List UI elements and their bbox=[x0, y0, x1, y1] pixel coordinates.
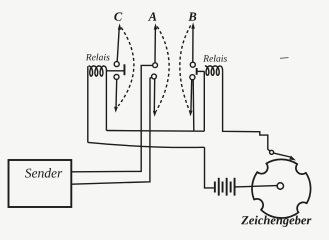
reed B rod lower bbox=[190, 80, 193, 112]
reed A lower contact circle bbox=[152, 74, 157, 79]
label A bbox=[148, 12, 156, 20]
reed A upper contact circle bbox=[153, 63, 158, 68]
reed A bottom arrowhead bbox=[153, 111, 157, 117]
reed B rod upper bbox=[192, 26, 194, 62]
battery B1 bbox=[214, 178, 236, 196]
reed B lower contact circle bbox=[190, 75, 195, 80]
label C bbox=[114, 12, 122, 20]
coil L1 right-end connector bbox=[104, 66, 106, 71]
wire: battery bus horizontal bbox=[88, 142, 205, 147]
Zeichengeber cam wheel bbox=[252, 159, 311, 218]
reed B swing arc (dashed) bbox=[180, 26, 191, 112]
contact bar C bbox=[124, 64, 126, 75]
Sender box bbox=[9, 160, 72, 207]
wire: left relay coil to bar C bbox=[106, 70, 123, 72]
reed B upper contact circle bbox=[190, 62, 195, 67]
wire: left coil left end down to battery bus bbox=[87, 66, 89, 142]
reed C rod upper bbox=[117, 27, 119, 62]
label B bbox=[188, 13, 196, 21]
reed C upper contact circle bbox=[114, 62, 119, 67]
label Relais (right) bbox=[203, 55, 227, 62]
wire: left coil right end down bbox=[105, 71, 107, 131]
selector contact pivot bbox=[270, 150, 274, 154]
reed A rod upper bbox=[154, 26, 156, 62]
reed C bottom arrowhead bbox=[114, 107, 118, 113]
reed C lower contact circle bbox=[114, 74, 119, 79]
selector lever arrowhead bbox=[289, 156, 296, 161]
wire: A lower contact to sender (bottom) bbox=[72, 77, 152, 184]
coil L2 right-end connector bbox=[220, 66, 222, 72]
wire: common up to right coil left end bbox=[203, 71, 205, 131]
label Zeichengeber bbox=[241, 216, 311, 227]
wire: bar B to right coil bbox=[197, 70, 204, 72]
reed A swing arc (dashed) bbox=[156, 27, 169, 112]
wire: B lower contact down to common bbox=[192, 80, 195, 131]
wire: right coil right end down and across to selector contact bbox=[223, 72, 270, 151]
reed C rod lower bbox=[115, 80, 118, 109]
contact bar B bbox=[196, 68, 198, 75]
ink speck bbox=[280, 57, 289, 60]
reed C swing arc (dashed) bbox=[118, 28, 134, 107]
relay coil L2 (right) bbox=[205, 66, 220, 75]
reed B bottom arrowhead bbox=[189, 111, 193, 117]
reed A rod lower bbox=[153, 79, 155, 113]
reed A top arrowhead bbox=[154, 23, 158, 29]
reed C top arrowhead bbox=[118, 23, 122, 29]
wire: relay common horizontal bbox=[106, 130, 204, 133]
reed B top arrowhead bbox=[191, 22, 195, 28]
wire: bus down to battery bbox=[205, 147, 214, 188]
label Relais (left) bbox=[86, 54, 110, 61]
wheel hub bbox=[277, 183, 283, 189]
label Sender bbox=[25, 168, 62, 178]
wire: battery to wheel hub bbox=[236, 186, 278, 187]
wire: A upper contact to sender (top) bbox=[72, 65, 153, 171]
relay coil L1 (left) bbox=[89, 66, 104, 76]
selector contact lever bbox=[274, 153, 291, 157]
